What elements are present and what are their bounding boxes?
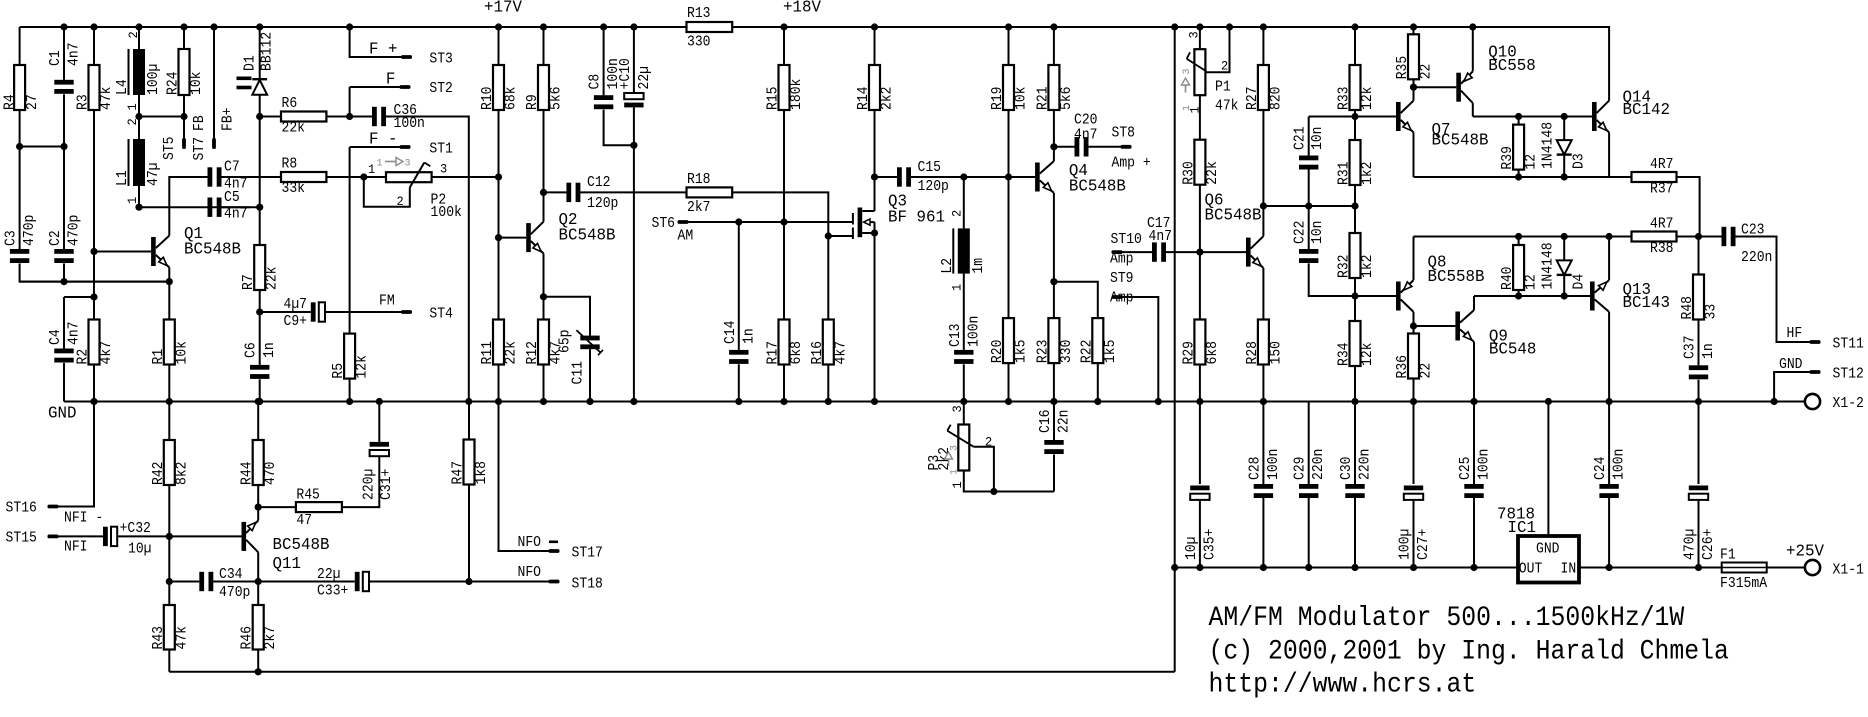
terminal ST15 — [48, 535, 59, 539]
svg-text:D3: D3 — [1572, 153, 1588, 169]
svg-text:ST10: ST10 — [1111, 232, 1142, 248]
svg-text:R40: R40 — [1500, 267, 1516, 291]
label Q9 — [1489, 327, 1537, 359]
resistor R11 — [480, 320, 520, 365]
wire R16 top — [827, 236, 829, 320]
capacitor C32 — [103, 521, 152, 558]
wire junction to C3 — [19, 147, 21, 250]
wire FB+ stub — [213, 27, 215, 138]
node rail-R14 — [871, 23, 878, 30]
svg-text:1: 1 — [377, 158, 383, 170]
label ST7 FB — [192, 115, 208, 160]
node rail-R35 — [1410, 23, 1417, 30]
label HF — [1787, 326, 1803, 342]
svg-text:C24: C24 — [1593, 457, 1609, 481]
label Amp+ — [1112, 156, 1151, 172]
svg-text:ST9: ST9 — [1110, 271, 1134, 287]
svg-text:ST8: ST8 — [1112, 126, 1136, 142]
node rail-R10 — [495, 23, 502, 30]
wire C21 top jog — [1308, 117, 1310, 156]
node R40 top — [1515, 233, 1522, 240]
resistor R19 — [990, 65, 1030, 110]
node R11-GND — [495, 398, 502, 405]
node R28-GND — [1260, 398, 1267, 405]
svg-text:220n: 220n — [1358, 449, 1374, 480]
label P1 arrow — [1181, 69, 1193, 112]
wire R46 bottom — [257, 650, 259, 672]
svg-text:C2: C2 — [48, 230, 64, 246]
node rail-R9 — [540, 23, 547, 30]
svg-text:1: 1 — [368, 162, 375, 177]
svg-text:Amp: Amp — [1110, 252, 1134, 268]
node Q3src-GND — [871, 398, 878, 405]
resistor R27 — [1245, 65, 1285, 110]
wire R27 to C21col — [1263, 205, 1308, 207]
node C13-GND — [960, 398, 967, 405]
wire P1 to R30 — [1199, 95, 1201, 140]
svg-text:1: 1 — [125, 197, 140, 204]
svg-text:ST11: ST11 — [1833, 337, 1864, 353]
pin P2-1 — [368, 162, 375, 177]
wire C7 to R8 — [221, 176, 281, 178]
svg-text:22µ: 22µ — [317, 567, 341, 583]
wire C4 bottom to GND corner — [63, 363, 65, 402]
svg-text:6k8: 6k8 — [789, 341, 805, 365]
wire emitter net — [20, 281, 170, 283]
node C10-GND — [630, 398, 637, 405]
wire C29 top — [1308, 402, 1310, 485]
svg-text:10µ: 10µ — [1184, 537, 1200, 561]
wire C34 left — [169, 581, 199, 583]
resistor R12 — [525, 320, 565, 365]
svg-text:GND: GND — [1779, 357, 1803, 373]
svg-text:R19: R19 — [990, 87, 1006, 111]
label Q11 — [273, 535, 330, 573]
node R39 top — [1515, 113, 1522, 120]
resistor R44 — [240, 440, 280, 485]
node R44-R45 — [255, 504, 262, 511]
node rail-P1wiper — [1226, 23, 1233, 30]
svg-text:ST2: ST2 — [429, 81, 453, 97]
svg-text:ST7: ST7 — [192, 137, 208, 161]
resistor R17 — [766, 320, 806, 365]
svg-text:ST5: ST5 — [162, 137, 178, 161]
svg-text:470p: 470p — [22, 215, 38, 246]
svg-text:R12: R12 — [525, 341, 541, 365]
svg-text:R23: R23 — [1035, 340, 1051, 364]
label title line3 — [1209, 670, 1477, 701]
terminal ST16 — [48, 505, 59, 509]
svg-text:C30: C30 — [1339, 457, 1355, 481]
svg-text:R13: R13 — [687, 6, 711, 22]
svg-text:C27+: C27+ — [1416, 529, 1432, 560]
node rail-D1 — [256, 23, 263, 30]
capacitor C17 — [1147, 216, 1172, 262]
wire R7 top — [259, 207, 261, 245]
terminal ST12 — [1810, 370, 1821, 374]
svg-text:C14: C14 — [723, 321, 739, 345]
wire D3 top lead — [1563, 117, 1565, 141]
wire C26 top — [1698, 402, 1700, 485]
capacitor C8 — [588, 58, 623, 109]
node C36ret-GND — [465, 398, 472, 405]
svg-text:C3: C3 — [4, 230, 20, 246]
wire R12 bottom — [543, 365, 545, 402]
wire R37 out — [1677, 177, 1700, 237]
wire D1 top — [259, 27, 261, 79]
wire C10 bottom — [633, 107, 635, 145]
label ST15 — [6, 531, 37, 547]
node C24-rail — [1606, 564, 1613, 571]
node Q13e net — [1606, 233, 1613, 240]
label ST18 — [572, 577, 603, 593]
svg-text:C20: C20 — [1074, 113, 1098, 129]
node ST12-GND — [1771, 398, 1778, 405]
node R39 bottom — [1515, 173, 1522, 180]
wire ST12 — [1774, 372, 1809, 402]
label ST4 — [429, 307, 453, 323]
svg-text:470p: 470p — [67, 215, 83, 246]
wire R47 top — [468, 402, 470, 440]
svg-text:47k: 47k — [99, 87, 115, 111]
terminal ST9 — [1112, 295, 1123, 299]
label AM — [678, 229, 694, 245]
svg-text:R48: R48 — [1680, 296, 1696, 320]
pin P1-3 — [1187, 31, 1202, 38]
node rail-18vert — [1171, 23, 1178, 30]
wire R42 top — [168, 402, 170, 441]
svg-text:C15: C15 — [918, 160, 942, 176]
terminal ST11 — [1810, 340, 1821, 344]
wire C28 bottom — [1262, 498, 1264, 568]
svg-text:R34: R34 — [1337, 343, 1353, 367]
node C26-rail — [1695, 564, 1702, 571]
wire +25V rail — [1579, 567, 1722, 569]
wire +18V bottom rail — [1175, 567, 1518, 569]
wire C21 bottom — [1308, 170, 1310, 207]
wire R9 bottom — [543, 110, 545, 192]
label title line1 — [1209, 603, 1685, 634]
svg-text:ST1: ST1 — [429, 142, 453, 158]
capacitor C14 — [723, 321, 758, 364]
label ST2 — [429, 81, 453, 97]
resistor R38 — [1632, 217, 1677, 258]
svg-text:IC1: IC1 — [1508, 518, 1537, 537]
svg-text:R47: R47 — [451, 461, 467, 485]
svg-text:NFI: NFI — [64, 540, 88, 556]
diode D1 BB112 — [237, 32, 276, 95]
capacitor C27 — [1398, 486, 1433, 561]
svg-text:27: 27 — [25, 94, 41, 110]
svg-text:R37: R37 — [1650, 182, 1674, 198]
svg-text:C12: C12 — [587, 175, 611, 191]
svg-text:3: 3 — [440, 162, 447, 177]
wire C34 to Q11 — [213, 581, 259, 583]
node C9 junction — [256, 308, 263, 315]
svg-text:3: 3 — [949, 445, 961, 451]
wire R23 bottom — [1053, 363, 1055, 401]
wire G2 lead — [828, 235, 853, 237]
resistor R8 — [281, 157, 326, 198]
node R2-C4 junction — [90, 293, 97, 300]
svg-text:R29: R29 — [1181, 341, 1197, 365]
svg-text:C33+: C33+ — [317, 584, 348, 600]
wire Q3 source to GND — [874, 233, 876, 402]
node R27-C21 — [1260, 202, 1267, 209]
wire P1 wiper — [1206, 27, 1229, 72]
capacitor C2 — [48, 215, 83, 263]
node C28-rail — [1260, 564, 1267, 571]
label Amp — [1110, 252, 1134, 268]
resistor R46 — [240, 605, 280, 650]
resistor R7 — [241, 245, 281, 290]
wire R33 top — [1354, 27, 1356, 65]
svg-text:5k6: 5k6 — [1059, 87, 1075, 111]
wire D1 to R6 — [259, 95, 261, 117]
svg-text:BF 961: BF 961 — [888, 208, 945, 227]
capacitor C26 — [1683, 486, 1718, 561]
wire R44 bottom — [257, 485, 259, 507]
svg-text:100µ: 100µ — [1398, 529, 1414, 560]
svg-text:4n7: 4n7 — [224, 207, 248, 223]
node IC1gnd — [1545, 398, 1552, 405]
svg-text:120p: 120p — [918, 179, 949, 195]
svg-text:C29: C29 — [1293, 457, 1309, 481]
pin P3-2 — [985, 435, 992, 450]
resistor R13 — [687, 6, 733, 50]
wire C11 top — [544, 297, 591, 336]
capacitor C37 — [1683, 336, 1718, 380]
wire R20 bottom — [1008, 363, 1010, 401]
wire D1 down — [259, 117, 261, 208]
wire R1 top — [168, 282, 170, 320]
capacitor C15 — [897, 160, 949, 195]
wire R38 out — [1677, 236, 1699, 238]
node R24-ST5 — [180, 113, 187, 120]
node AM-R15 — [780, 218, 787, 225]
svg-text:C1: C1 — [48, 50, 64, 66]
node +17V label — [484, 0, 522, 17]
wire C31 top — [378, 402, 380, 442]
wire L4 bottom — [138, 95, 140, 139]
svg-text:R31: R31 — [1337, 162, 1353, 186]
node rail-R21 — [1050, 23, 1057, 30]
terminal ST18 — [549, 580, 560, 584]
wire R39 bottom lead — [1518, 170, 1520, 177]
svg-text:BC548: BC548 — [1489, 340, 1537, 359]
svg-text:R24: R24 — [166, 72, 182, 96]
svg-text:100n: 100n — [394, 116, 425, 132]
svg-text:Amp +: Amp + — [1112, 156, 1151, 172]
node pot3-R10 — [495, 173, 502, 180]
wire C1-R4 link — [20, 146, 64, 148]
svg-text:R8: R8 — [282, 157, 298, 173]
svg-text:2k7: 2k7 — [687, 200, 711, 216]
node rail-R33 — [1351, 23, 1358, 30]
node Q4 emitter net — [1050, 278, 1057, 285]
terminal ST4 — [401, 310, 412, 314]
svg-text:R2: R2 — [76, 349, 92, 365]
svg-text:ST15: ST15 — [6, 531, 37, 547]
diode D3 — [1541, 122, 1588, 169]
svg-text:220µ: 220µ — [362, 469, 378, 500]
node R23-GND — [1050, 398, 1057, 405]
wire Q8e net — [1414, 236, 1632, 238]
node R20-GND — [1005, 398, 1012, 405]
capacitor C21 — [1293, 127, 1327, 170]
svg-text:4n7: 4n7 — [1074, 128, 1098, 144]
svg-text:12k: 12k — [1360, 343, 1376, 367]
wire R15 down — [783, 110, 785, 222]
terminal ST10 — [1112, 250, 1123, 254]
svg-text:100k: 100k — [431, 205, 462, 221]
node AM-C14 — [735, 218, 742, 225]
svg-text:D1: D1 — [243, 55, 259, 71]
svg-text:GND: GND — [48, 404, 77, 423]
svg-text:R3: R3 — [76, 94, 92, 110]
wire C37 bottom — [1698, 380, 1700, 402]
pin P3-3 — [950, 405, 965, 412]
svg-text:L2: L2 — [940, 258, 956, 274]
label Q14 — [1623, 88, 1671, 120]
terminal ST5 — [182, 138, 186, 149]
node C29-rail — [1305, 564, 1312, 571]
svg-text:470: 470 — [263, 462, 279, 486]
node C30-rail — [1351, 564, 1358, 571]
svg-text:IN: IN — [1561, 562, 1577, 578]
svg-text:C22: C22 — [1293, 221, 1309, 245]
resistor R35 — [1395, 34, 1435, 79]
svg-text:47: 47 — [296, 513, 312, 529]
svg-text:C5: C5 — [224, 190, 240, 206]
node R2-GND — [90, 398, 97, 405]
node R38-C23-R48 — [1695, 233, 1702, 240]
node Q13c-GND — [1606, 398, 1613, 405]
svg-text:F +: F + — [369, 40, 398, 59]
svg-text:1k8: 1k8 — [474, 461, 490, 485]
node P2 pin1 — [360, 173, 367, 180]
label F+ — [369, 40, 398, 59]
node D4 top — [1561, 233, 1568, 240]
wire C12 left — [544, 191, 567, 193]
resistor R3 — [76, 65, 116, 110]
svg-text:NFI -: NFI - — [64, 511, 103, 527]
wire +17V rail — [20, 26, 687, 28]
wire F1 to X1-1 — [1767, 567, 1805, 569]
svg-text:(c) 2000,2001 by Ing. Harald C: (c) 2000,2001 by Ing. Harald Chmela — [1209, 637, 1729, 668]
svg-text:R42: R42 — [151, 462, 167, 486]
svg-text:R15: R15 — [766, 87, 782, 111]
resistor R22 — [1079, 318, 1119, 363]
resistor R40 — [1500, 245, 1540, 290]
svg-text:470µ: 470µ — [1683, 529, 1699, 560]
wire R4 top — [19, 27, 21, 65]
svg-text:1k5: 1k5 — [1103, 340, 1119, 364]
node rail-Q10e — [1469, 23, 1476, 30]
svg-text:10k: 10k — [174, 341, 190, 365]
svg-text:33k: 33k — [282, 181, 306, 197]
svg-text:C25: C25 — [1458, 457, 1474, 481]
svg-text:R14: R14 — [856, 87, 872, 111]
svg-text:2k2: 2k2 — [880, 87, 896, 111]
wire R12 top — [543, 297, 545, 320]
capacitor C13 — [948, 316, 983, 364]
wire Q1 base — [94, 251, 151, 253]
wire C27 bottom — [1413, 500, 1415, 568]
svg-text:BC548B: BC548B — [1432, 131, 1489, 150]
capacitor C25 — [1458, 449, 1493, 498]
svg-text:ST4: ST4 — [429, 307, 453, 323]
resistor R5 — [331, 334, 371, 379]
svg-text:5k6: 5k6 — [549, 87, 565, 111]
svg-text:X1-1: X1-1 — [1833, 563, 1864, 579]
wire to R2 — [93, 297, 95, 320]
wire C13 bottom — [963, 364, 965, 401]
svg-text:47k: 47k — [174, 626, 190, 650]
svg-text:C28: C28 — [1247, 457, 1263, 481]
potentiometer P2 — [386, 163, 462, 222]
wire R4 bottom — [19, 110, 21, 147]
node Q6 base junction — [1196, 249, 1203, 256]
wire R44 top — [257, 402, 259, 441]
wire L4-R24 link — [139, 116, 184, 118]
wire ST9 down — [1123, 297, 1159, 402]
wire L2 top — [963, 177, 965, 228]
wire ST17 — [499, 402, 549, 552]
node Q2 emitter — [540, 293, 547, 300]
svg-text:2: 2 — [125, 118, 140, 125]
wire R30 bottom — [1199, 185, 1201, 252]
label Q10 — [1488, 43, 1536, 76]
svg-text:ST6: ST6 — [652, 216, 676, 232]
label NFO1 — [518, 535, 559, 551]
wire C15 left — [875, 176, 898, 178]
svg-text:HF: HF — [1787, 326, 1803, 342]
svg-text:R45: R45 — [296, 488, 320, 504]
svg-text:R27: R27 — [1245, 87, 1261, 111]
svg-text:180k: 180k — [789, 79, 805, 110]
wire R23 top — [1053, 282, 1055, 318]
wire R48 to C37 — [1698, 320, 1700, 366]
node R22-GND — [1094, 398, 1101, 405]
wire AM line — [689, 221, 853, 223]
wire C23 to HF — [1735, 237, 1810, 343]
svg-text:C31+: C31+ — [379, 469, 395, 500]
wire +18V rail — [732, 27, 1609, 92]
svg-text:C13: C13 — [948, 324, 964, 348]
svg-text:220n: 220n — [1741, 250, 1772, 266]
node C11-GND — [586, 398, 593, 405]
node C25-rail — [1470, 564, 1477, 571]
wire C9 to ST4 — [325, 311, 401, 313]
node D4 bottom — [1561, 292, 1568, 299]
label Q8 — [1428, 253, 1485, 287]
wire R31 bottom — [1354, 185, 1356, 233]
svg-text:C26+: C26+ — [1701, 529, 1717, 560]
pin P2-2 — [397, 194, 404, 209]
transistor Q6 — [1246, 206, 1263, 320]
label ST10 — [1111, 232, 1142, 248]
capacitor C36 — [372, 103, 425, 132]
node Q9e-GND — [1470, 398, 1477, 405]
svg-text:820: 820 — [1268, 87, 1284, 111]
node C14-GND — [735, 398, 742, 405]
svg-text:65p: 65p — [558, 330, 574, 354]
label X1-1 — [1833, 563, 1864, 579]
svg-text:12: 12 — [1524, 274, 1540, 290]
svg-text:R11: R11 — [480, 341, 496, 365]
wire R31-R32 link — [1309, 205, 1355, 207]
